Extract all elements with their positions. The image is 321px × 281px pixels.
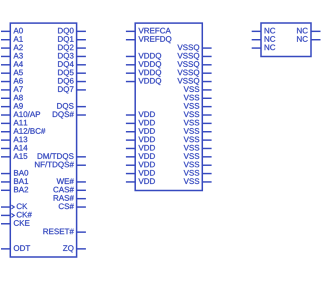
pin DQ7 (unit A right) xyxy=(58,86,86,93)
pin VDD (unit B left) xyxy=(126,112,155,118)
pin VSS (unit B right) xyxy=(184,145,212,151)
pin CAS# (unit A right) xyxy=(53,187,85,193)
pin VSSQ (unit B right) xyxy=(177,61,211,68)
pin CKE (unit A left) xyxy=(1,220,30,226)
pin DM/TDQS (unit A right) xyxy=(38,153,86,160)
pin DQ1 (unit A right) xyxy=(58,36,86,43)
pin VSS (unit B right) xyxy=(184,137,212,143)
pin CS# (unit A right) xyxy=(59,203,86,209)
pin NC (unit C left, row 2) xyxy=(252,45,276,51)
U1 unit A body (address/control/data block) xyxy=(10,23,76,257)
pin VSS (unit B right) xyxy=(184,162,212,168)
pin VDDQ (unit B left) xyxy=(126,70,161,77)
pin VDDQ (unit B left) xyxy=(126,53,161,60)
pin A4 (unit A left) xyxy=(1,61,23,66)
pin WE# (unit A right) xyxy=(57,178,86,184)
pin CK# (unit A left) xyxy=(1,212,32,218)
pin NC (unit C right, row 0) xyxy=(297,28,320,34)
pin VDDQ (unit B left) xyxy=(126,61,161,68)
pin A10/AP (unit A left) xyxy=(1,111,40,117)
pin VDD (unit B left) xyxy=(126,162,155,168)
pin RAS# (unit A right) xyxy=(54,195,86,201)
pin DQS (unit A right) xyxy=(57,103,86,110)
pin CK (unit A left) xyxy=(1,203,27,209)
pin VDD (unit B left) xyxy=(126,153,155,159)
pin NC (unit C right, row 1) xyxy=(297,36,320,42)
pin DQ6 (unit A right) xyxy=(58,78,86,85)
pin VSS (unit B right) xyxy=(184,111,212,117)
pin VSS (unit B right) xyxy=(184,95,212,101)
pin A11 (unit A left) xyxy=(1,120,27,126)
pin DQ4 (unit A right) xyxy=(58,61,86,68)
pin VSS (unit B right) xyxy=(184,86,212,92)
pin A13 (unit A left) xyxy=(1,137,27,143)
pin ZQ (unit A right) xyxy=(63,245,86,252)
pin VSS (unit B right) xyxy=(184,128,212,134)
pin VSS (unit B right) xyxy=(184,170,212,176)
pin A5 (unit A left) xyxy=(1,70,23,76)
pin DQ3 (unit A right) xyxy=(58,53,86,60)
pin A7 (unit A left) xyxy=(1,86,23,92)
pin A1 (unit A left) xyxy=(1,36,23,42)
pin VDD (unit B left) xyxy=(126,178,155,184)
pin VREFDQ (unit B left) xyxy=(126,36,171,43)
pin ODT (unit A left) xyxy=(1,245,30,251)
U1 unit C body (no-connect block) xyxy=(261,23,311,57)
U1 unit B body (power block) xyxy=(135,23,202,190)
pin DQ2 (unit A right) xyxy=(58,45,86,52)
pin VSS (unit B right) xyxy=(184,103,212,109)
pin A3 (unit A left) xyxy=(1,53,23,59)
pin VSSQ (unit B right) xyxy=(177,45,211,52)
pin VSS (unit B right) xyxy=(184,120,212,126)
pin NF/TDQS# (unit A right) xyxy=(35,161,86,168)
pin NC (unit C left, row 0) xyxy=(252,28,276,34)
pin A15 (unit A left) xyxy=(1,153,27,159)
pin VDD (unit B left) xyxy=(126,120,155,126)
pin DQS# (unit A right) xyxy=(53,111,86,118)
pin A0 (unit A left) xyxy=(1,28,23,34)
pin VSS (unit B right) xyxy=(184,178,212,184)
pin A12/BC# (unit A left) xyxy=(1,128,45,134)
pin VSSQ (unit B right) xyxy=(177,53,211,60)
pin A8 (unit A left) xyxy=(1,95,23,101)
pin VDD (unit B left) xyxy=(126,137,155,143)
pin VDD (unit B left) xyxy=(126,170,155,176)
pin NC (unit C left, row 1) xyxy=(252,36,276,42)
pin VSSQ (unit B right) xyxy=(177,78,211,85)
pin DQ0 (unit A right) xyxy=(58,28,86,35)
pin A2 (unit A left) xyxy=(1,45,23,51)
pin BA0 (unit A left) xyxy=(1,170,28,176)
pin VSSQ (unit B right) xyxy=(177,70,211,77)
pin VDD (unit B left) xyxy=(126,145,155,151)
pin VREFCA (unit B left) xyxy=(126,28,171,34)
pin VDDQ (unit B left) xyxy=(126,78,161,85)
pin VSS (unit B right) xyxy=(184,153,212,159)
pin RESET# (unit A right) xyxy=(43,229,85,235)
pin A6 (unit A left) xyxy=(1,78,23,84)
pin A14 (unit A left) xyxy=(1,145,27,151)
pin BA2 (unit A left) xyxy=(1,187,28,193)
pin VDD (unit B left) xyxy=(126,128,155,134)
pin BA1 (unit A left) xyxy=(1,178,28,184)
pin A9 (unit A left) xyxy=(1,103,23,109)
pin DQ5 (unit A right) xyxy=(58,70,86,77)
